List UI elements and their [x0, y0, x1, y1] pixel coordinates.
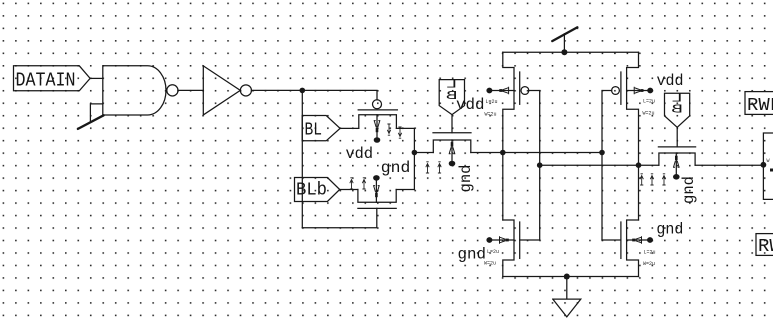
svg-text:W=2u: W=2u: [484, 261, 496, 267]
node BL flag: [302, 116, 340, 141]
svg-text:vdd: vdd: [346, 145, 374, 163]
svg-text:gnd: gnd: [381, 159, 411, 177]
svg-text:gnd: gnd: [457, 165, 475, 193]
transistor Q8 read nmos gate plate: [658, 146, 695, 148]
tiny size marks Q3: [426, 162, 429, 173]
transistor Q1 pass pmos gate bubble: [373, 100, 382, 109]
node BL down-flag (read): [665, 92, 690, 128]
ground symbol: [553, 277, 581, 317]
svg-text:W=2u: W=2u: [643, 111, 655, 117]
transistor Q2 pass nmos channel: [358, 190, 396, 203]
wire Q7 gate connect: [602, 239, 621, 241]
wire X1 to write nmos: [414, 152, 433, 154]
transistor Q3 channel: [433, 140, 471, 153]
transistor Q2 gate plate: [358, 207, 396, 209]
wire NAND output to inverter: [178, 89, 203, 91]
junction node W (inverter out): [300, 88, 306, 94]
svg-text:L=2u: L=2u: [486, 99, 498, 105]
wire gnd bottom rail: [503, 276, 639, 278]
svg-text:gnd: gnd: [458, 246, 487, 264]
transistor Q2 bulk dot: [373, 175, 380, 181]
transistor Q4 bulk dot: [486, 88, 492, 94]
svg-text:BLb: BLb: [296, 179, 327, 200]
wire Q8 drain to instance: [695, 164, 763, 166]
transistor Q4 gate plate: [519, 72, 521, 104]
nand gate U1 output bubble: [167, 85, 178, 96]
transistor Q7 right cell nmos channel: [627, 220, 639, 277]
wire junction vertical: [413, 128, 415, 189]
transistor Q8 channel: [659, 153, 695, 165]
wire flag to read nmos gate: [676, 127, 678, 147]
tiny size marks Q2: [350, 178, 353, 189]
junction dot left cell node: [500, 150, 506, 156]
svg-text:gnd: gnd: [656, 221, 683, 239]
node RWL box label: [745, 92, 773, 116]
wire slash stem: [563, 34, 565, 52]
transistor Q6 bulk arrow: [489, 239, 514, 241]
wire Q2 drain to junction: [396, 189, 414, 191]
svg-text:gnd: gnd: [680, 176, 698, 204]
transistor Q5 right cell pmos source/channel/drain: [627, 52, 639, 220]
node RWL box label 2 (cut): [756, 234, 773, 257]
transistor Q1 bulk dot: [374, 137, 381, 143]
svg-text:W=2u: W=2u: [643, 261, 655, 267]
wire Q1 drain to junction: [396, 127, 414, 129]
transistor Q6 bulk dot: [486, 237, 492, 243]
wire lower cross couple: [540, 164, 659, 166]
svg-text:DATAIN: DATAIN: [16, 69, 76, 91]
junction dot left gate on nodebar: [537, 162, 543, 168]
wire node W to pass pmos gate: [302, 90, 377, 99]
wire Q6 gate connect: [520, 239, 540, 241]
transistor Q4 bulk arrow: [489, 90, 514, 92]
wire NAND input 2 stub: [90, 104, 102, 121]
transistor Q3 bulk dot: [449, 161, 456, 167]
transistor Q4 gate bubble: [521, 87, 529, 95]
junction dot gnd rail: [564, 274, 570, 280]
junction dot right gate on node: [599, 150, 605, 156]
wire node W down left rail: [301, 90, 303, 227]
nand gate U1 body: [103, 66, 166, 115]
transistor Q7 gate plate: [620, 222, 622, 258]
transistor Q1 bulk arrow: [376, 115, 378, 138]
inverter U2 triangle: [203, 66, 240, 115]
svg-text:W: W: [767, 158, 770, 164]
svg-text:vdd: vdd: [456, 96, 485, 114]
transistor Q8 bulk arrow: [675, 153, 677, 174]
junction dot X1: [412, 150, 418, 156]
wire bottom to pass nmos gate: [302, 208, 377, 227]
node BL down-flag (write wordline): [439, 78, 464, 115]
power slash off-page: [552, 27, 577, 41]
node BLb flag: [295, 178, 340, 202]
transistor Q6 gate plate: [519, 222, 521, 258]
svg-text:B: B: [671, 103, 683, 116]
junction dot vdd rail: [561, 49, 567, 55]
instance bracket (cut at edge): [763, 133, 773, 199]
transistor Q5 gate bubble: [612, 87, 620, 95]
transistor Q8 bulk dot: [673, 174, 680, 180]
wire Q4 gate to cross-couple: [529, 91, 540, 241]
svg-text:W=2u: W=2u: [485, 112, 497, 118]
wire inverter output: [252, 89, 303, 91]
transistor Q3 bulk arrow: [451, 140, 453, 161]
wire Q3 drain to cell: [471, 152, 602, 154]
wire BLb to pass nmos source: [340, 189, 358, 191]
svg-text:L=2u: L=2u: [644, 250, 656, 256]
svg-text:vdd: vdd: [657, 72, 684, 90]
transistor Q5 bulk arrow: [627, 90, 651, 92]
wire flag to write nmos gate: [451, 115, 453, 133]
transistor Q7 bulk arrow: [627, 239, 650, 241]
svg-text:BL: BL: [305, 119, 323, 140]
svg-text:L=2u: L=2u: [487, 249, 499, 255]
transistor Q1 channel: [359, 115, 397, 129]
wire BL to pass pmos source: [340, 127, 359, 129]
junction dot right drain on nodebar: [636, 162, 642, 168]
transistor Q4 left cell pmos source/channel/drain: [503, 52, 514, 220]
wire DATAIN to NAND input 1: [90, 77, 103, 79]
transistor Q6 left cell nmos channel: [503, 220, 514, 277]
tiny mark below right drain dot: [640, 174, 643, 185]
wire vdd top rail: [503, 51, 639, 53]
wire diagonal off-page input: [78, 115, 104, 129]
junction dot instance pin: [761, 162, 767, 168]
transistor Q1 gate plate: [358, 109, 397, 111]
svg-text:RWL: RWL: [747, 96, 773, 116]
wire Q5 gate to cross-couple: [602, 91, 612, 241]
transistor Q2 bulk arrow: [375, 181, 377, 203]
svg-text:L=2u: L=2u: [643, 99, 655, 105]
transistor Q5 bulk dot: [647, 88, 653, 94]
tiny size marks Q1: [387, 124, 390, 135]
tiny size marks Q8: [650, 174, 653, 185]
transistor Q3 write nmos gate plate: [433, 132, 471, 134]
svg-text:RWL: RWL: [758, 237, 773, 257]
node DATAIN flag: [14, 66, 91, 92]
transistor Q5 gate plate: [620, 72, 622, 104]
transistor Q7 bulk dot: [647, 237, 653, 243]
inverter U2 bubble: [240, 85, 251, 96]
